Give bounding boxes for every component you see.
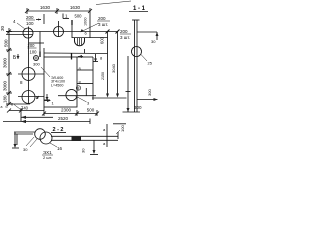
- strip inner vertical: [85, 88, 87, 96]
- label 200 / 3 sht with leader: [81, 16, 111, 32]
- plan top edge: [6, 31, 118, 33]
- svg-text:25: 25: [148, 61, 153, 66]
- svg-text:3 шт.: 3 шт.: [98, 22, 108, 27]
- section title 1-1: [129, 6, 148, 12]
- dimension line top (1630+1630): [25, 8, 92, 15]
- svg-text:100: 100: [26, 21, 34, 26]
- section arrow line: [137, 98, 158, 101]
- plate text block: [51, 76, 65, 87]
- label 4 with leader: [13, 19, 25, 29]
- plan upper step vertical: [71, 20, 73, 38]
- leader line top right diagonal: [96, 1, 131, 5]
- tie line y43: [29, 42, 45, 44]
- anchor symbol: [93, 54, 103, 62]
- view flag B: [13, 54, 20, 61]
- svg-text:200: 200: [26, 15, 34, 20]
- svg-text:3000: 3000: [3, 57, 8, 68]
- lifting loop: [75, 38, 85, 46]
- plan second edge: [72, 37, 108, 39]
- svg-text:30: 30: [23, 147, 28, 152]
- section top leader 30: [137, 32, 159, 44]
- svg-text:30: 30: [151, 39, 156, 44]
- bar eye circle: [40, 132, 52, 144]
- hole circle top-mid: [54, 27, 64, 37]
- section cut 2 thick mark: [72, 53, 84, 60]
- svg-text:2520: 2520: [58, 116, 69, 121]
- svg-text:100: 100: [30, 50, 38, 55]
- svg-text:1000: 1000: [84, 18, 88, 26]
- bar hanger leg: [90, 140, 98, 154]
- svg-text:200: 200: [28, 43, 36, 48]
- svg-text:600: 600: [100, 36, 105, 44]
- svg-text:3000: 3000: [3, 80, 8, 91]
- svg-text:300: 300: [147, 89, 152, 96]
- right strip: [77, 57, 93, 100]
- anchor symbol rect bottom: [44, 94, 50, 100]
- plan top edge flange segment: [6, 34, 33, 36]
- svg-text:3 шт.: 3 шт.: [120, 35, 130, 40]
- section flag 1 top: [63, 14, 69, 19]
- label 200/100 stacked top left: [26, 15, 41, 26]
- svg-text:30: 30: [81, 148, 86, 153]
- bottom dim line of plan: [42, 107, 99, 116]
- svg-text:500: 500: [75, 14, 83, 19]
- svg-text:200: 200: [120, 29, 128, 34]
- rect left edge upper extension: [43, 48, 45, 57]
- bar label Zh 2sht: [42, 150, 53, 160]
- inner horizontal edge y53.5: [44, 52, 108, 55]
- bracket hatch leaders: [26, 137, 37, 147]
- svg-text:2300: 2300: [61, 108, 72, 113]
- svg-text:500: 500: [87, 108, 95, 113]
- svg-text:30: 30: [0, 25, 5, 31]
- bubble 8 above plate circle: [76, 86, 80, 90]
- section cut a-a: [103, 124, 107, 147]
- plan bottom-left edge: [6, 103, 30, 105]
- label 3 with leader: [76, 96, 91, 106]
- svg-text:L=4500: L=4500: [51, 83, 63, 87]
- bar leader 16: [50, 143, 63, 151]
- hole circle plate bottom: [66, 89, 77, 100]
- hole circle left lower: [22, 91, 35, 104]
- left lower dim line 740: [9, 110, 44, 112]
- section flag 1 bottom: [44, 99, 54, 106]
- bar section fill: [72, 136, 82, 141]
- extension above top-mid circle: [58, 21, 60, 37]
- small circle with cross: [33, 55, 39, 61]
- section hole circle: [132, 47, 142, 57]
- svg-text:6: 6: [11, 103, 13, 107]
- line through left mid hole: [18, 73, 44, 75]
- svg-text:2150: 2150: [101, 72, 105, 80]
- bracket top edge: [14, 132, 35, 134]
- vertical dim x108.5: [107, 31, 109, 95]
- svg-text:740: 740: [21, 106, 29, 111]
- vertical x40: [39, 32, 41, 58]
- hanger foot arrow left: [106, 94, 109, 98]
- svg-text:2 шт.: 2 шт.: [43, 155, 52, 160]
- bracket vertical: [12, 132, 19, 148]
- bar top line: [51, 135, 118, 137]
- svg-text:200: 200: [98, 16, 106, 21]
- dim line 2520: [3, 119, 90, 125]
- bracket hole circle: [35, 129, 46, 140]
- left chord vertical: [28, 27, 30, 105]
- svg-text:3040: 3040: [111, 63, 116, 73]
- bar bottom line: [51, 139, 118, 141]
- left dimension line: [6, 28, 12, 106]
- svg-text:16: 16: [57, 146, 63, 151]
- section label 16 with leader: [141, 55, 153, 66]
- section 1-1 post double line: [132, 20, 140, 112]
- extension line x44 upper: [43, 14, 45, 24]
- svg-text:1630: 1630: [40, 5, 51, 10]
- top tick slashes of verticals: [106, 30, 120, 34]
- svg-text:б: б: [6, 105, 8, 109]
- line through left lower hole: [18, 96, 44, 98]
- chord line end slash: [37, 96, 40, 99]
- svg-text:300: 300: [33, 62, 40, 67]
- section left thin vertical: [127, 56, 129, 112]
- svg-text:100: 100: [120, 125, 125, 132]
- loop inner hatch: [78, 38, 82, 45]
- extension x90 down: [89, 15, 91, 38]
- hanger foot arrow right: [116, 94, 119, 98]
- central plate rectangle: [44, 57, 77, 107]
- plate text leader: [41, 67, 50, 77]
- bar end dim 100: [113, 124, 126, 139]
- hole circle left mid: [22, 68, 35, 81]
- section label 200 3sht: [120, 29, 131, 40]
- extension x21: [20, 108, 22, 122]
- hanger feet line: [92, 97, 127, 99]
- svg-text:1630: 1630: [70, 5, 81, 10]
- line through plate circle: [58, 95, 96, 97]
- mid dim line y117: [21, 116, 53, 119]
- vertical dim x116.5: [117, 31, 119, 95]
- section title 2-2: [51, 127, 66, 133]
- strip inner divider top: [84, 49, 86, 54]
- svg-text:8: 8: [78, 87, 80, 91]
- svg-text:300: 300: [134, 105, 142, 110]
- svg-text:180: 180: [3, 95, 8, 103]
- section bottom dim: [123, 105, 143, 112]
- svg-text:а: а: [1, 105, 3, 109]
- hole circle top-left: [23, 28, 33, 38]
- svg-text:500: 500: [4, 39, 9, 47]
